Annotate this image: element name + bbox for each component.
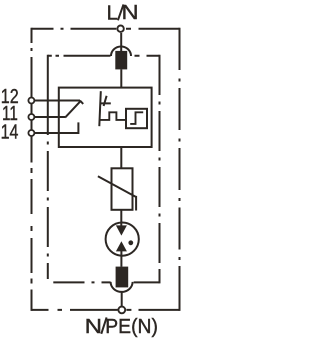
inner module dash-dot border: top edge	[48, 55, 160, 57]
terminal 12	[28, 98, 34, 104]
inner module dash-dot border: left edge	[47, 55, 49, 279]
disconnector element F1 (black)	[115, 51, 127, 70]
thermal disconnector arc (top)	[111, 47, 131, 57]
inner module dash-dot border: bottom edge	[53, 281, 159, 283]
wire L/N terminal to disconnector F1	[120, 33, 122, 51]
node label L/N : slash	[118, 4, 124, 20]
wire terminal 12	[35, 101, 83, 104]
svg-text:L: L	[107, 2, 118, 25]
wire box to varistor	[120, 147, 122, 168]
wire terminal 11	[35, 116, 65, 118]
outer enclosure dash-dot border: bottom edge	[32, 309, 180, 311]
monitoring/FM contact box	[59, 88, 152, 147]
thermal disconnector arc (bottom)	[111, 282, 133, 292]
disconnector actuator flag	[99, 91, 111, 126]
terminal L/N	[117, 26, 123, 32]
outer enclosure dash-dot border: top edge	[32, 28, 180, 30]
outer enclosure dash-dot border: right edge	[179, 28, 181, 311]
changeover contact blade	[65, 101, 81, 118]
spark gap electrodes (arrows)	[115, 51, 133, 288]
node label N/PE(N) : slash	[101, 317, 106, 333]
wire varistor to spark gap	[120, 210, 122, 227]
terminal 14	[28, 130, 34, 136]
outer enclosure dash-dot border: left edge	[31, 28, 33, 311]
defect signal box	[126, 109, 147, 128]
wire below spark gap	[120, 251, 122, 267]
wire disconnector to monitoring box	[120, 69, 122, 87]
wire terminal 14	[35, 122, 79, 133]
varistor diagonal with tail	[98, 176, 136, 210]
svg-text:N: N	[85, 315, 102, 338]
terminal 11	[28, 114, 34, 120]
spark gap circle	[106, 223, 139, 256]
disconnector element F2 (black)	[116, 267, 129, 288]
gas symbol dot	[128, 240, 133, 245]
wire to N/PE terminal	[121, 292, 123, 306]
svg-text:14: 14	[1, 122, 19, 144]
step waveform inside box	[130, 112, 143, 124]
svg-text:N: N	[122, 1, 139, 24]
inner module dash-dot border: right edge	[159, 55, 161, 284]
terminal N/PE	[118, 307, 125, 314]
svg-text:PE(N): PE(N)	[105, 315, 158, 338]
step link to defect indicator	[100, 112, 126, 120]
varistor rectangle	[112, 168, 133, 210]
